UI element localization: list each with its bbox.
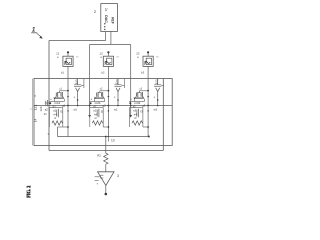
svg-text:b1: b1 [44, 112, 47, 116]
current source CS2 [103, 56, 113, 66]
output wire with arrow [105, 186, 108, 196]
svg-text:g1: g1 [62, 104, 66, 108]
svg-text:n1: n1 [53, 108, 57, 112]
svg-text:b3: b3 [141, 71, 145, 75]
svg-text:g2: g2 [102, 104, 106, 108]
svg-text:2x: 2x [104, 8, 108, 12]
svg-text:w2: w2 [114, 108, 118, 112]
transistor Q0 [39, 100, 49, 116]
svg-text:11: 11 [56, 52, 59, 56]
transistor pair Q31 Q32 [129, 88, 149, 109]
wire source to pair 3 [147, 66, 149, 136]
svg-text:s: s [154, 96, 156, 99]
svg-text:3: 3 [117, 174, 119, 178]
transistor Q13 [74, 78, 84, 105]
outer box 100 (open frame) [49, 41, 163, 151]
terminal stub 1 [67, 53, 69, 57]
junction dot right bus [130, 105, 132, 107]
node dots cell 2 [108, 90, 119, 107]
op-amp A1 [95, 172, 119, 186]
control block U10 [101, 4, 118, 32]
svg-text:c2: c2 [100, 88, 103, 91]
svg-text:REF: REF [111, 17, 115, 24]
svg-text:xx: xx [117, 57, 120, 59]
svg-text:a: a [34, 95, 37, 97]
svg-text:14: 14 [34, 119, 38, 123]
svg-text:a: a [100, 56, 102, 59]
svg-text:b1: b1 [61, 71, 65, 75]
svg-text:c3: c3 [139, 88, 142, 91]
numeral 1 leader label [31, 28, 43, 39]
svg-text:m21: m21 [95, 101, 101, 105]
terminal stub 2 [107, 53, 109, 57]
svg-text:xx: xx [76, 57, 79, 59]
svg-text:r1: r1 [54, 116, 57, 120]
svg-text:121: 121 [33, 105, 37, 111]
svg-text:s: s [114, 96, 116, 99]
node dots cell 1 [67, 90, 78, 107]
wire resistor to amp [105, 165, 107, 172]
label 13a [136, 52, 140, 59]
svg-text:c: c [30, 108, 32, 111]
svg-text:12: 12 [99, 52, 103, 56]
svg-text:m11: m11 [54, 101, 60, 105]
wire from block to supply bus [110, 32, 112, 45]
inner box 120 [34, 79, 172, 146]
svg-text:s: s [74, 96, 76, 99]
transistor pair Q21 Q22 [89, 88, 109, 109]
svg-text:w1: w1 [73, 108, 77, 112]
svg-text:R2: R2 [97, 154, 101, 158]
gate drive line [88, 45, 132, 118]
current source CS3 [143, 56, 153, 66]
svg-text:e: e [91, 98, 93, 101]
wire source to pair 2 [107, 66, 109, 136]
mid bus node line [34, 105, 172, 107]
svg-text:n2: n2 [93, 108, 97, 112]
svg-text:e: e [131, 98, 133, 101]
transistor Q23 [114, 78, 124, 105]
junction dot left bus [89, 105, 91, 107]
label 12a [99, 52, 103, 59]
svg-text:FIG. 2: FIG. 2 [28, 185, 33, 198]
svg-text:g3: g3 [142, 104, 146, 108]
transistor Q24 with resistor R2 [90, 108, 109, 142]
svg-text:13: 13 [136, 52, 140, 56]
svg-text:n3: n3 [133, 108, 137, 112]
transistor Q34 with resistor R3 [130, 108, 149, 128]
svg-text:xx: xx [156, 57, 159, 59]
transistor Q33 [154, 78, 164, 105]
svg-text:12b: 12b [39, 106, 43, 111]
label 11a [56, 52, 59, 59]
svg-text:w3: w3 [154, 108, 158, 112]
svg-text:a: a [137, 56, 139, 59]
transistor pair Q11 Q12 [49, 88, 69, 109]
svg-text:e: e [50, 98, 52, 101]
svg-text:13: 13 [111, 138, 115, 142]
current source CS1 [63, 56, 73, 66]
svg-text:v: v [97, 181, 99, 185]
svg-text:a: a [57, 56, 59, 59]
node dots cell 3 [147, 90, 158, 107]
svg-text:b2: b2 [101, 71, 105, 75]
transistor Q14 with resistor R1 [49, 108, 68, 128]
svg-text:a2: a2 [45, 108, 49, 112]
svg-text:DAC: DAC [104, 15, 108, 23]
svg-text:r3: r3 [134, 116, 137, 120]
svg-text:r2: r2 [94, 116, 97, 120]
svg-text:m31: m31 [134, 101, 140, 105]
wire source to pair 1 [67, 66, 69, 136]
svg-text:c1: c1 [59, 88, 62, 91]
resistor R10 [97, 153, 108, 165]
wire from block to outer box top [105, 32, 107, 41]
svg-text:b: b [48, 133, 50, 136]
terminal stub 3 [147, 53, 149, 57]
bottom bus [58, 127, 150, 138]
svg-text:2: 2 [94, 9, 97, 14]
wire bottom bus to resistor [105, 136, 107, 153]
